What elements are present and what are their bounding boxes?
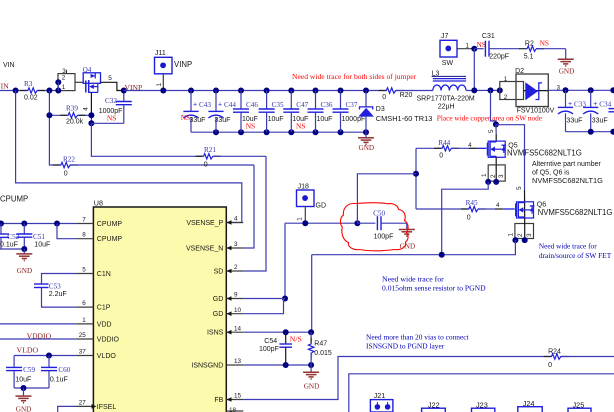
- svg-text:33uF: 33uF: [592, 118, 608, 125]
- svg-text:0.015: 0.015: [314, 350, 332, 357]
- svg-text:N/S: N/S: [290, 335, 302, 344]
- svg-text:13: 13: [234, 358, 242, 365]
- svg-text:R22: R22: [63, 156, 75, 164]
- svg-text:10: 10: [234, 307, 242, 314]
- svg-text:SD: SD: [214, 269, 224, 276]
- svg-text:CPUMP: CPUMP: [97, 236, 123, 243]
- svg-text:20.0k: 20.0k: [66, 119, 84, 126]
- svg-text:8: 8: [82, 232, 86, 239]
- svg-text:0: 0: [467, 214, 471, 221]
- svg-text:10uF: 10uF: [34, 242, 50, 249]
- svg-text:5.1: 5.1: [524, 53, 534, 60]
- svg-text:7: 7: [82, 217, 86, 224]
- svg-text:ISNS: ISNS: [207, 330, 224, 337]
- svg-text:0: 0: [204, 161, 208, 168]
- svg-text:FB: FB: [214, 397, 223, 404]
- svg-text:1: 1: [504, 76, 508, 83]
- svg-text:C32: C32: [105, 97, 117, 105]
- svg-text:2.2uF: 2.2uF: [49, 291, 67, 298]
- svg-text:4: 4: [496, 202, 500, 209]
- svg-text:Place wide copper area on SW n: Place wide copper area on SW node: [437, 113, 542, 122]
- svg-text:+: +: [593, 101, 597, 108]
- svg-text:3: 3: [526, 233, 533, 237]
- svg-text:CPUMP: CPUMP: [97, 221, 123, 228]
- svg-text:3: 3: [234, 241, 238, 248]
- svg-text:100pF: 100pF: [259, 346, 279, 353]
- svg-text:C1P: C1P: [97, 305, 111, 312]
- svg-text:VSENSE_N: VSENSE_N: [186, 246, 223, 253]
- svg-text:15: 15: [234, 393, 242, 400]
- svg-text:GND: GND: [400, 243, 416, 251]
- svg-text:1: 1: [466, 43, 470, 50]
- svg-text:SRP1770TA-220M: SRP1770TA-220M: [417, 95, 475, 102]
- svg-text:Need wide trace for: Need wide trace for: [382, 275, 444, 284]
- svg-text:C31: C31: [482, 33, 495, 40]
- svg-text:1: 1: [508, 233, 515, 237]
- svg-text:R47: R47: [314, 341, 327, 348]
- svg-text:J21: J21: [374, 391, 386, 400]
- svg-text:27: 27: [79, 399, 87, 406]
- svg-text:10uF: 10uF: [268, 116, 284, 123]
- svg-text:0: 0: [382, 94, 386, 101]
- svg-text:1: 1: [156, 83, 163, 87]
- svg-text:ISNSGND to PGND layer: ISNSGND to PGND layer: [366, 342, 445, 351]
- svg-text:100pF: 100pF: [374, 233, 394, 240]
- svg-text:2: 2: [234, 264, 238, 271]
- svg-text:GD: GD: [213, 296, 224, 303]
- svg-text:1: 1: [62, 84, 66, 91]
- svg-text:U8: U8: [94, 199, 103, 208]
- svg-text:VDDIO: VDDIO: [27, 331, 52, 340]
- svg-text:+: +: [218, 101, 222, 108]
- svg-text:2: 2: [62, 75, 66, 82]
- svg-text:NS: NS: [477, 40, 486, 49]
- svg-text:0: 0: [548, 362, 552, 369]
- svg-text:0.015ohm sense resistor to PGN: 0.015ohm sense resistor to PGND: [382, 284, 486, 293]
- svg-text:5: 5: [108, 75, 112, 82]
- svg-text:5: 5: [516, 186, 523, 190]
- svg-text:CPUMP: CPUMP: [0, 194, 28, 203]
- svg-text:GND: GND: [559, 68, 575, 76]
- svg-text:1: 1: [82, 317, 86, 324]
- svg-text:1000pF: 1000pF: [342, 116, 366, 123]
- svg-text:J7: J7: [441, 33, 449, 40]
- svg-text:4: 4: [234, 216, 238, 223]
- svg-text:22µH: 22µH: [438, 104, 455, 111]
- svg-text:GND: GND: [16, 406, 32, 412]
- svg-text:C1N: C1N: [97, 271, 111, 278]
- svg-text:NS: NS: [540, 38, 549, 47]
- svg-text:D3: D3: [376, 106, 385, 113]
- svg-text:2: 2: [517, 233, 524, 237]
- svg-text:C37: C37: [346, 101, 358, 109]
- svg-text:R20: R20: [400, 92, 413, 99]
- svg-text:GND: GND: [304, 382, 320, 390]
- svg-text:C60: C60: [58, 366, 70, 374]
- svg-text:SW: SW: [442, 60, 454, 67]
- svg-text:0: 0: [439, 153, 443, 160]
- svg-text:VLDO: VLDO: [17, 346, 39, 355]
- svg-text:R24: R24: [548, 348, 561, 355]
- svg-text:4: 4: [82, 107, 89, 111]
- svg-text:VIN: VIN: [3, 62, 15, 69]
- svg-text:C47: C47: [296, 101, 308, 109]
- svg-text:1: 1: [297, 217, 304, 221]
- svg-text:GND: GND: [359, 144, 375, 152]
- svg-text:VDDIO: VDDIO: [97, 337, 120, 344]
- svg-text:GD: GD: [316, 203, 327, 210]
- svg-text:IFSEL: IFSEL: [97, 404, 117, 411]
- svg-text:14: 14: [234, 325, 242, 332]
- svg-text:25: 25: [79, 332, 87, 339]
- svg-text:10uF: 10uF: [317, 116, 333, 123]
- svg-text:4: 4: [468, 142, 472, 149]
- svg-text:Alterntive part number: Alterntive part number: [532, 161, 602, 168]
- svg-text:NS: NS: [296, 121, 305, 130]
- svg-text:0.1uF: 0.1uF: [50, 377, 68, 384]
- svg-text:J11: J11: [155, 50, 166, 57]
- svg-text:10uF: 10uF: [15, 377, 31, 384]
- svg-text:drain/source of SW FET: drain/source of SW FET: [539, 251, 612, 260]
- svg-text:GND: GND: [17, 267, 33, 275]
- svg-text:2: 2: [504, 94, 508, 101]
- svg-text:Need more than 20 vias to conn: Need more than 20 vias to connect: [366, 333, 470, 342]
- svg-text:5: 5: [488, 129, 495, 133]
- svg-text:R39: R39: [66, 105, 78, 113]
- svg-text:VIN: VIN: [0, 82, 9, 91]
- svg-text:C36: C36: [321, 101, 333, 109]
- svg-text:5: 5: [82, 267, 86, 274]
- svg-text:NS: NS: [181, 113, 190, 122]
- svg-text:NVMFS5C682NLT1G: NVMFS5C682NLT1G: [532, 176, 603, 185]
- svg-text:R3: R3: [24, 80, 33, 88]
- svg-text:1: 1: [481, 173, 488, 177]
- svg-text:C34: C34: [599, 100, 611, 108]
- svg-text:VINP: VINP: [174, 60, 192, 69]
- svg-text:3: 3: [498, 174, 505, 178]
- svg-text:0: 0: [64, 171, 68, 178]
- svg-text:Need wide trace for: Need wide trace for: [539, 242, 597, 251]
- svg-text:NS: NS: [246, 121, 255, 130]
- svg-text:37: 37: [79, 349, 87, 356]
- svg-text:R21: R21: [204, 146, 216, 154]
- svg-text:VSENSE_P: VSENSE_P: [186, 220, 223, 227]
- svg-text:+: +: [568, 101, 572, 108]
- svg-text:0.02: 0.02: [24, 94, 38, 101]
- svg-text:C53: C53: [49, 283, 61, 291]
- svg-text:ISNSGND: ISNSGND: [191, 363, 223, 370]
- svg-text:Need wide trace for both sides: Need wide trace for both sides of jumper: [292, 72, 417, 81]
- svg-text:2: 2: [490, 174, 497, 178]
- svg-text:33uF: 33uF: [215, 117, 231, 124]
- svg-text:+: +: [193, 101, 197, 108]
- svg-text:NS: NS: [107, 113, 116, 122]
- svg-text:C46: C46: [246, 101, 258, 109]
- svg-text:C50: C50: [373, 210, 385, 218]
- svg-text:NVMFS5C682NLT1G: NVMFS5C682NLT1G: [507, 148, 582, 157]
- svg-text:0.1uF: 0.1uF: [0, 242, 18, 249]
- svg-text:C44: C44: [224, 101, 236, 109]
- svg-text:R44: R44: [438, 139, 450, 147]
- svg-text:33uF: 33uF: [567, 118, 583, 125]
- svg-text:CMSH1-60 TR13: CMSH1-60 TR13: [376, 114, 433, 123]
- svg-text:C54: C54: [264, 338, 277, 345]
- svg-text:6: 6: [82, 300, 86, 307]
- svg-text:VLDO: VLDO: [97, 353, 117, 360]
- svg-text:R2: R2: [525, 40, 534, 47]
- svg-text:VDD: VDD: [97, 321, 112, 328]
- svg-text:C43: C43: [199, 101, 211, 109]
- svg-text:R45: R45: [466, 199, 478, 207]
- svg-text:9: 9: [234, 292, 238, 299]
- svg-text:C51: C51: [33, 233, 45, 241]
- svg-text:33uF: 33uF: [190, 117, 206, 124]
- svg-text:220pF: 220pF: [489, 53, 509, 60]
- svg-text:GD: GD: [213, 311, 224, 318]
- svg-text:C59: C59: [23, 366, 35, 374]
- svg-text:NVMFS5C682NLT1G: NVMFS5C682NLT1G: [538, 208, 613, 217]
- svg-text:C35: C35: [272, 101, 284, 109]
